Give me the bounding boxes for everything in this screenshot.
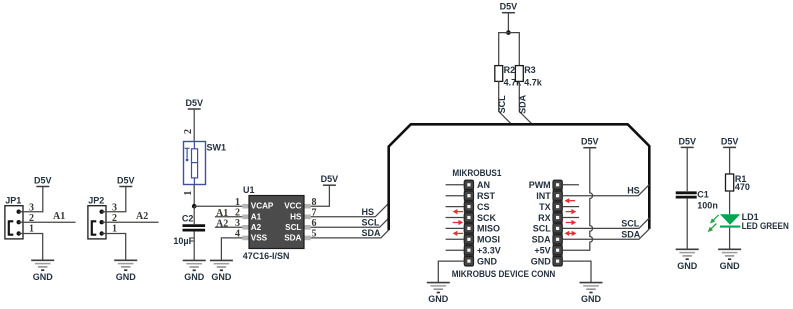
junction R2 R3 node bbox=[506, 30, 511, 35]
wire JP1 pin2 net A1 bbox=[19, 221, 76, 223]
svg-text:R2: R2 bbox=[504, 65, 516, 75]
wire JP2 pin2 net A2 bbox=[102, 221, 159, 223]
ground below JP1 bbox=[31, 260, 54, 282]
svg-text:+5V: +5V bbox=[534, 246, 550, 256]
svg-text:A2: A2 bbox=[251, 223, 262, 232]
ground below C2 bbox=[183, 260, 206, 282]
LD1 emission arrow 1 bbox=[710, 215, 719, 224]
svg-text:+3.3V: +3.3V bbox=[477, 246, 501, 256]
svg-text:10µF: 10µF bbox=[173, 236, 194, 246]
svg-text:MISO: MISO bbox=[477, 224, 500, 234]
svg-text:100n: 100n bbox=[697, 201, 718, 211]
wire JP2 pin1 to GND bbox=[102, 234, 126, 261]
wire JP1 pin3 to D5V bbox=[19, 187, 43, 212]
wire U1 pin8 VCC to D5V bbox=[311, 185, 330, 206]
LED LD1 bbox=[720, 212, 789, 231]
svg-text:C1: C1 bbox=[697, 190, 709, 200]
wire D5V to SW1 bbox=[193, 109, 195, 142]
svg-text:RST: RST bbox=[477, 191, 496, 201]
LD1 emission arrow 2 bbox=[708, 224, 717, 233]
svg-text:SCL: SCL bbox=[285, 223, 301, 232]
svg-text:GND: GND bbox=[531, 256, 552, 266]
wire D5V to junction bbox=[507, 13, 509, 33]
svg-text:SCL: SCL bbox=[533, 224, 552, 234]
svg-text:SDA: SDA bbox=[518, 94, 528, 114]
svg-text:U1: U1 bbox=[243, 185, 255, 195]
wire R2 to bus SCL bbox=[499, 81, 512, 124]
wire JP2 pin3 to D5V bbox=[102, 187, 126, 212]
ground below JP2 bbox=[114, 260, 137, 282]
resistor R1 bbox=[726, 174, 750, 192]
svg-text:SCL: SCL bbox=[497, 95, 507, 114]
svg-text:JP1: JP1 bbox=[5, 195, 21, 205]
wire RX stub bbox=[563, 217, 579, 219]
wire node to U1 pin1 bbox=[194, 205, 242, 207]
CS arrow bbox=[453, 209, 464, 214]
svg-text:AN: AN bbox=[477, 180, 490, 190]
SCK arrow bbox=[453, 220, 464, 225]
bus HS SCL SDA bbox=[389, 124, 650, 230]
ground below C1 bbox=[676, 249, 699, 270]
wire C2 to GND bbox=[193, 231, 195, 260]
svg-text:VCC: VCC bbox=[284, 202, 301, 211]
wire PWM stub bbox=[563, 184, 579, 186]
svg-text:C2: C2 bbox=[182, 214, 194, 224]
svg-text:MIKROBUS1: MIKROBUS1 bbox=[452, 168, 501, 178]
wire SDA to bus bbox=[563, 229, 649, 239]
MISO arrow bbox=[453, 231, 464, 236]
wire R1 to LD1 bbox=[729, 191, 731, 214]
wire SCL to bus bbox=[563, 218, 649, 228]
ground below left header bbox=[427, 283, 450, 305]
svg-text:HS: HS bbox=[627, 186, 640, 196]
svg-text:SDA: SDA bbox=[284, 233, 301, 242]
svg-text:PWM: PWM bbox=[529, 180, 551, 190]
wire junction to R2 R3 tops bbox=[499, 33, 520, 66]
wire SW1 to node bbox=[193, 185, 195, 207]
svg-text:SDA: SDA bbox=[621, 229, 641, 239]
wire U1 pin7 HS to bus bbox=[311, 203, 389, 217]
svg-text:A1: A1 bbox=[216, 208, 228, 219]
ground below right header bbox=[580, 283, 603, 305]
connector MIKROBUS right header bbox=[529, 180, 563, 267]
wire AN stub bbox=[446, 184, 464, 186]
SCL arrow bbox=[565, 231, 577, 236]
wire D5V down to +5V with hops bbox=[563, 148, 593, 251]
svg-text:SCL: SCL bbox=[621, 219, 640, 229]
wire SCK stub bbox=[446, 217, 464, 219]
resistor R2 bbox=[495, 65, 522, 88]
wire JP1 pin1 to GND bbox=[19, 234, 43, 261]
wire node to C2 bbox=[193, 206, 195, 224]
wire MISO stub bbox=[446, 227, 464, 229]
svg-text:1: 1 bbox=[235, 197, 240, 208]
capacitor C2 bbox=[173, 214, 205, 246]
wire GND row right to ground bbox=[563, 261, 591, 283]
connector JP2 bbox=[88, 195, 106, 239]
power D5V above U1 bbox=[321, 174, 339, 185]
svg-text:VCAP: VCAP bbox=[251, 202, 274, 211]
wire U1 pin6 SCL to bus bbox=[311, 218, 389, 227]
svg-text:1: 1 bbox=[183, 191, 194, 196]
IC U1 bbox=[242, 185, 310, 261]
svg-text:470: 470 bbox=[735, 182, 750, 192]
svg-text:A2: A2 bbox=[136, 211, 148, 222]
svg-text:SCL: SCL bbox=[362, 218, 381, 228]
svg-text:HS: HS bbox=[362, 207, 375, 217]
wire C1 to GND bbox=[686, 199, 688, 250]
svg-text:A1: A1 bbox=[53, 211, 65, 222]
svg-text:INT: INT bbox=[536, 191, 551, 201]
power D5V above R2 R3 bbox=[500, 2, 518, 13]
junction VCAP node bbox=[192, 204, 197, 209]
svg-text:SDA: SDA bbox=[532, 235, 552, 245]
svg-text:47C16-I/SN: 47C16-I/SN bbox=[243, 251, 290, 261]
wire A2 to U1 pin3 bbox=[215, 226, 242, 228]
ground below U1 VSS bbox=[210, 260, 233, 282]
power D5V above JP1 bbox=[34, 176, 52, 187]
TX arrow bbox=[566, 209, 577, 214]
svg-text:JP2: JP2 bbox=[88, 195, 104, 205]
power D5V above C1 bbox=[678, 136, 696, 147]
connector MIKROBUS1 left header bbox=[452, 168, 501, 266]
wire D5V to C1 bbox=[686, 147, 688, 191]
wire A1 to U1 pin2 bbox=[215, 216, 242, 218]
connector JP1 bbox=[5, 195, 23, 239]
wire CS stub bbox=[446, 206, 464, 208]
svg-text:TX: TX bbox=[539, 202, 551, 212]
wire RST stub bbox=[446, 195, 464, 197]
wire LD1 to GND bbox=[729, 228, 731, 250]
svg-text:A1: A1 bbox=[251, 212, 262, 221]
wire U1 pin5 SDA to bus bbox=[311, 230, 389, 238]
INT arrow bbox=[565, 198, 576, 203]
wire TX stub bbox=[563, 206, 579, 208]
ground below LD1 bbox=[718, 249, 741, 270]
wire U1 pin4 VSS to GND bbox=[221, 238, 242, 261]
svg-text:CS: CS bbox=[477, 202, 490, 212]
svg-text:MOSI: MOSI bbox=[477, 235, 500, 245]
svg-text:GND: GND bbox=[477, 256, 498, 266]
wire +3.3V stub bbox=[446, 249, 464, 251]
wire GND row to ground bbox=[438, 261, 464, 283]
svg-text:VSS: VSS bbox=[251, 233, 268, 242]
svg-text:SDA: SDA bbox=[362, 228, 382, 238]
power D5V mikrobus bbox=[581, 137, 599, 148]
wire INT to HS bus bbox=[563, 185, 649, 196]
power D5V above JP2 bbox=[117, 176, 135, 187]
RX arrow bbox=[566, 220, 577, 225]
svg-text:4.7k: 4.7k bbox=[524, 78, 543, 88]
svg-text:LED GREEN: LED GREEN bbox=[742, 221, 789, 231]
svg-text:RX: RX bbox=[538, 213, 551, 223]
resistor R3 bbox=[515, 65, 542, 88]
svg-text:SCK: SCK bbox=[477, 213, 497, 223]
svg-text:SW1: SW1 bbox=[207, 143, 227, 153]
power D5V above SW1 bbox=[185, 98, 203, 109]
svg-text:A2: A2 bbox=[216, 218, 228, 229]
wire R3 to bus SDA bbox=[519, 81, 532, 124]
svg-text:MIKROBUS DEVICE CONN: MIKROBUS DEVICE CONN bbox=[452, 269, 556, 279]
capacitor C1 bbox=[676, 190, 718, 211]
wire MOSI stub bbox=[446, 238, 464, 240]
wire D5V to R1 bbox=[729, 147, 731, 174]
power D5V above R1 bbox=[721, 136, 739, 147]
svg-text:R3: R3 bbox=[524, 65, 536, 75]
svg-text:2: 2 bbox=[183, 129, 194, 134]
svg-text:HS: HS bbox=[290, 212, 302, 221]
switch SW1 bbox=[184, 142, 227, 185]
